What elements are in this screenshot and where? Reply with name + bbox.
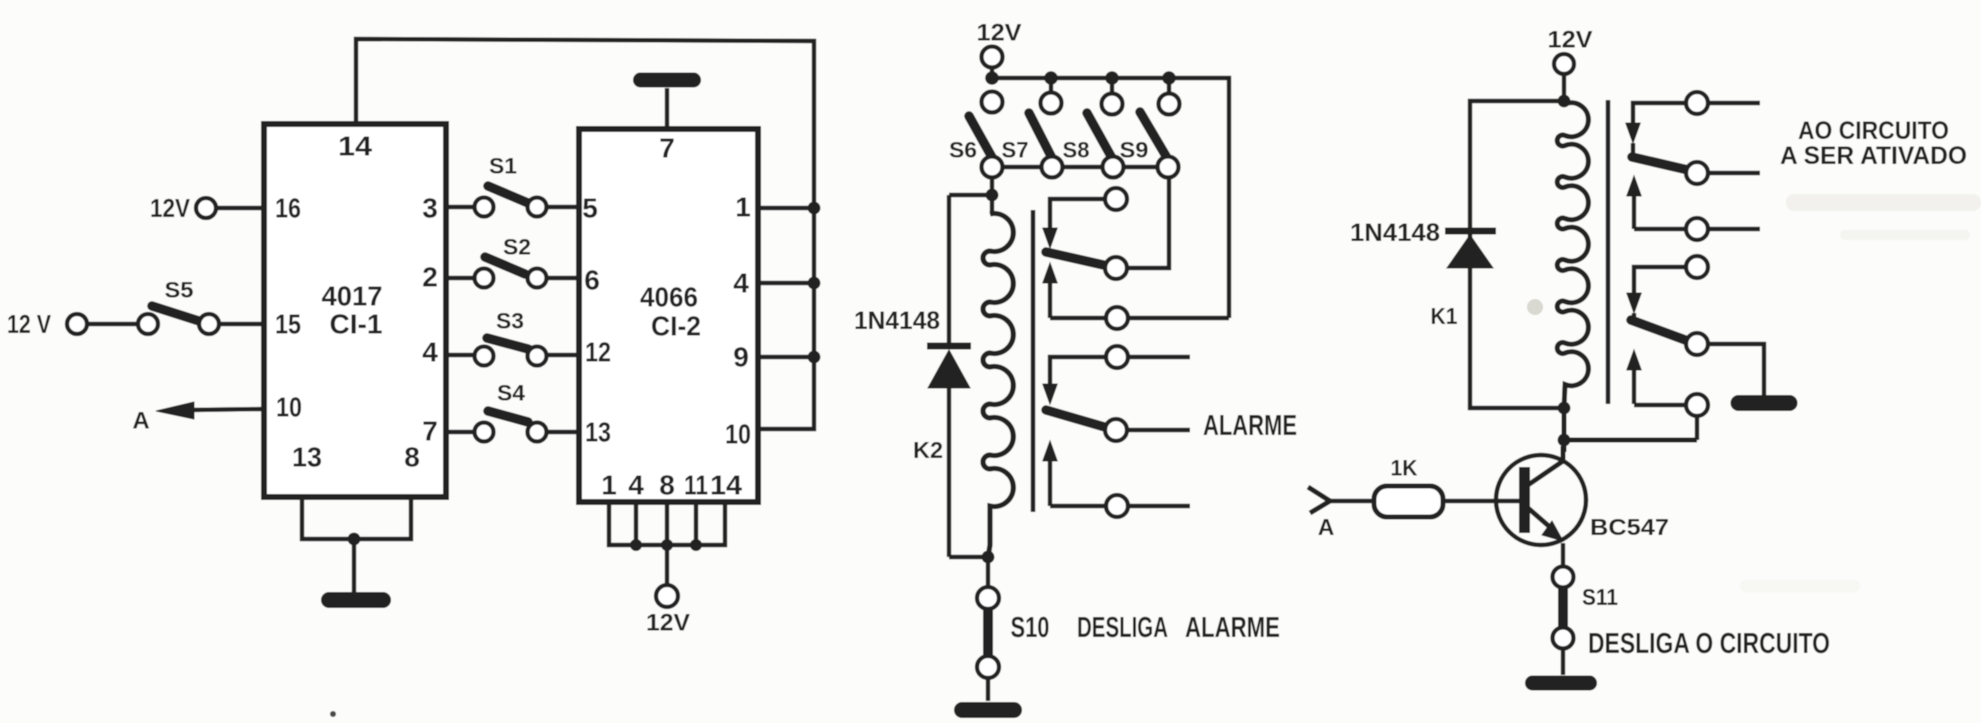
label A SER ATIVADO (1780, 142, 1967, 170)
wire 12V rail over S6-S9 (992, 67, 1229, 318)
svg-text:1: 1 (735, 192, 751, 223)
node dot rail S7 (1044, 71, 1058, 85)
pin 14 bottom label (710, 470, 742, 501)
ground above CI-2 (633, 73, 701, 88)
label DESLIGA ALARME (1077, 612, 1280, 644)
arrow K2 contact2 down (1043, 384, 1057, 404)
svg-text:4: 4 (422, 337, 438, 368)
pin 14 label (338, 131, 372, 162)
svg-text:12V: 12V (1548, 27, 1593, 54)
switch S3 (475, 309, 547, 366)
svg-text:14: 14 (338, 131, 372, 162)
svg-text:13: 13 (292, 442, 322, 473)
svg-text:K1: K1 (1431, 303, 1458, 329)
svg-text:DESLIGA: DESLIGA (1077, 612, 1168, 644)
svg-text:8: 8 (404, 442, 420, 473)
wire R1 to base (1443, 499, 1521, 503)
svg-text:K2: K2 (913, 437, 943, 463)
pin 13 label (585, 417, 611, 448)
pin 4 bottom label (628, 470, 644, 501)
svg-text:BC547: BC547 (1590, 514, 1669, 540)
svg-text:11: 11 (684, 470, 708, 501)
label 1N4148 (D1) (1350, 219, 1440, 247)
svg-text:5: 5 (582, 193, 598, 224)
svg-text:16: 16 (275, 193, 301, 224)
node dot bus pin9 (808, 351, 821, 364)
resistor R1 1K (1374, 456, 1443, 518)
wire K2 contact2 movable (ALARME) (1127, 428, 1190, 432)
wire K1 bottom to collector node (1562, 408, 1567, 452)
svg-text:12V: 12V (646, 610, 690, 637)
K1 contact2 bottom circle (1686, 394, 1708, 416)
K2 contact2 bottom circle (1106, 495, 1128, 517)
K1 contact2 movable circle (1686, 333, 1708, 355)
wire K1 contact2 movable to ground (1708, 344, 1764, 396)
svg-text:12V: 12V (977, 20, 1022, 47)
wire K2 contact1 top fixed (1050, 199, 1105, 229)
wire S10 to ground (986, 678, 990, 701)
arrow K2 contact2 up (1043, 441, 1057, 506)
pin 12 label (585, 337, 611, 368)
K1 contact1 top circle (1686, 92, 1708, 114)
switch S9 (1120, 94, 1180, 178)
svg-text:6: 6 (584, 265, 600, 296)
relay coil K2 (913, 214, 1013, 558)
svg-text:14: 14 (710, 470, 742, 501)
svg-text:1N4148: 1N4148 (1350, 219, 1440, 247)
switch S5 (138, 278, 219, 335)
switch S11 (1553, 567, 1619, 649)
wire K1 contact2 top fixed (1634, 267, 1686, 294)
svg-text:12 V: 12 V (7, 309, 52, 339)
svg-text:S7: S7 (1002, 138, 1029, 163)
node dot K2 bottom (982, 551, 995, 564)
arrow K1 contact1 down (1626, 123, 1640, 155)
svg-text:S5: S5 (165, 278, 194, 303)
K2 contact1 lever (1046, 252, 1108, 266)
wire rail stubs to sensor switches (1051, 78, 1169, 94)
switch S2 (475, 235, 547, 288)
pin 7 label (659, 133, 675, 164)
wire K2 contact1 movable to S9 (1127, 177, 1169, 268)
switch S1 (475, 154, 547, 217)
wire S-switch to CI-2 pin 12 (546, 353, 579, 357)
transistor Q1 BC547 (1496, 446, 1669, 545)
svg-text:3: 3 (422, 193, 438, 224)
wire CI-2 bottom pins 1-4-8-11-14 to 12V (609, 502, 725, 585)
pin 4 label (422, 337, 438, 368)
ground at K1 contact2 (1731, 395, 1798, 411)
svg-text:S1: S1 (489, 154, 517, 179)
wire K1 left rail with diode (1470, 101, 1564, 408)
label 1N4148 (D2) (854, 307, 940, 335)
svg-text:12V: 12V (150, 193, 191, 223)
IC U2 4066 CI-2 body (579, 129, 758, 502)
switch S10 (977, 587, 1050, 678)
wire S11 to ground (1561, 649, 1565, 675)
arrow K2 contact1 down (1043, 228, 1057, 248)
node dot rail S9 (1162, 71, 1176, 85)
diode D2 1N4148 (K2) (927, 346, 971, 557)
IC U1 4017 CI-1 body (264, 124, 446, 497)
arrowhead node A (156, 402, 194, 419)
node dot bus pin1 (808, 202, 821, 215)
label AO CIRCUITO (1798, 117, 1949, 145)
node dot CI-1 ground (348, 533, 361, 546)
pin 10 label (276, 392, 302, 423)
wire S6 common node to K2 (949, 177, 992, 214)
pin 16 label (275, 193, 301, 224)
svg-text:4066: 4066 (640, 282, 698, 313)
svg-text:1: 1 (601, 470, 617, 501)
K2 contact2 top circle (1106, 346, 1128, 368)
K2 contact2 lever (1046, 410, 1108, 428)
K1 contact1 bottom circle (1686, 218, 1708, 240)
label DESLIGA O CIRCUITO (1588, 628, 1830, 660)
K2 contact1 movable circle (1105, 257, 1127, 279)
power terminal 12V (K1) (1548, 27, 1593, 75)
wire 12V terminal to S5 (87, 322, 138, 326)
pin 7 label (422, 416, 438, 447)
pin 5 label (582, 193, 598, 224)
wire K2 coil bottom to S10 (949, 557, 988, 587)
wire K1 contact2 bottom (1634, 405, 1697, 440)
arrow K1 contact1 up (1627, 176, 1641, 229)
node dot collector (1558, 434, 1571, 447)
svg-text:4: 4 (733, 268, 749, 299)
power terminal 12V below CI-2 (646, 585, 690, 637)
ground under S11 (1525, 676, 1597, 691)
svg-text:ALARME: ALARME (1185, 612, 1280, 644)
pin 8 label (404, 442, 420, 473)
wire diode D2 branch top (947, 195, 951, 344)
wire K1 contact1 top fixed (1633, 103, 1760, 124)
svg-text:DESLIGA O CIRCUITO: DESLIGA O CIRCUITO (1588, 628, 1830, 660)
svg-text:A SER ATIVADO: A SER ATIVADO (1780, 142, 1967, 170)
wire A to resistor R1 (1330, 499, 1374, 503)
node A label (132, 408, 149, 435)
label ALARME (1203, 410, 1297, 442)
wire CI-1 pin 2 to S-switch (446, 276, 475, 280)
switch S6 (949, 92, 1003, 178)
svg-text:9: 9 (733, 342, 749, 373)
wire emitter to S11 (1561, 543, 1565, 566)
wire K2 contact2 bottom (1050, 504, 1190, 508)
wire common line under S6-S9 (992, 165, 1169, 169)
pin 3 label (422, 193, 438, 224)
svg-text:S8: S8 (1063, 138, 1090, 163)
pin 1 label (735, 192, 751, 223)
svg-text:S2: S2 (503, 235, 531, 260)
wire pins 13-8 of CI-1 to ground (302, 497, 411, 594)
wire K1 contact1 bottom (1634, 227, 1760, 231)
relay K1 core line (1606, 100, 1611, 404)
wire pin14 of CI-1 to right bus (top feedback wire) (356, 39, 814, 208)
pin 6 label (584, 265, 600, 296)
K2 contact2 movable circle (1105, 419, 1127, 441)
svg-text:S11: S11 (1582, 584, 1618, 610)
wire K2 contact2 top fixed (1050, 357, 1190, 385)
relay K2 core line (1031, 210, 1036, 512)
K2 contact1 bottom circle (1106, 307, 1128, 329)
node dot bus pin4 (808, 277, 821, 290)
svg-text:1K: 1K (1391, 456, 1418, 481)
node dot K1 coil bottom (1558, 402, 1571, 415)
wire S-switch to CI-2 pin 5 (546, 205, 579, 209)
relay coil K1 (1431, 101, 1589, 408)
wire K2 contact1 bottom (1050, 316, 1229, 320)
svg-text:1N4148: 1N4148 (854, 307, 940, 335)
arrow K1 contact2 up (1627, 350, 1641, 404)
svg-text:13: 13 (585, 417, 611, 448)
svg-text:A: A (132, 408, 149, 435)
node dot bottom pin8 (661, 539, 673, 551)
pin 10 label (725, 419, 751, 450)
node dot rail S8 (1105, 71, 1119, 85)
svg-text:7: 7 (422, 416, 438, 447)
svg-text:8: 8 (659, 470, 675, 501)
wire ground to pin 7 of CI-2 (top) (665, 88, 669, 129)
arrow K2 contact1 up (1043, 263, 1057, 318)
pin 15 label (275, 309, 301, 340)
pin 8 bottom label (659, 470, 675, 501)
svg-text:S6: S6 (949, 138, 977, 163)
pin 11 bottom label (684, 470, 708, 501)
ground under S10 (954, 702, 1022, 718)
power terminal 12V (pin16) (150, 193, 216, 223)
wire pin 10 of CI-1 to node A (output) (190, 409, 264, 410)
K2 contact1 top circle (1105, 188, 1127, 210)
K1 contact1 lever (1632, 157, 1688, 170)
power terminal 12V (S5) (7, 309, 87, 339)
K1 contact2 lever (1631, 320, 1688, 341)
node dot bottom pin4 (630, 539, 642, 551)
wire K1 contact1 movable (1708, 171, 1760, 175)
arrow K1 contact2 down (1627, 293, 1641, 320)
svg-text:7: 7 (659, 133, 675, 164)
pin 4 label (733, 268, 749, 299)
pin 13 label (292, 442, 322, 473)
diode D1 1N4148 (K1) (1445, 231, 1496, 268)
node dot rail S6 (985, 71, 999, 85)
svg-text:CI-1: CI-1 (330, 309, 383, 340)
wire 12V to K1 top (1562, 74, 1566, 101)
svg-text:S10: S10 (1011, 612, 1050, 644)
svg-text:4017: 4017 (322, 281, 383, 312)
wire S-switch to CI-2 pin 6 (546, 276, 579, 280)
svg-text:CI-2: CI-2 (651, 311, 701, 342)
wire right bus pins 1-4-9-10 of CI-2 (758, 208, 814, 429)
switch S8 (1063, 94, 1124, 178)
K1 contact1 movable circle (1686, 162, 1708, 184)
pin 1 bottom label (601, 470, 617, 501)
svg-text:S3: S3 (496, 309, 524, 334)
input node A chevron (1308, 487, 1334, 540)
wire 12V to pin 16 of CI-1 (216, 206, 264, 210)
svg-text:S4: S4 (497, 381, 526, 406)
svg-text:AO CIRCUITO: AO CIRCUITO (1798, 117, 1949, 145)
node dot bottom pin11 (690, 539, 702, 551)
svg-text:ALARME: ALARME (1203, 410, 1297, 442)
wire collector node to contact (1564, 438, 1697, 443)
svg-text:10: 10 (725, 419, 751, 450)
svg-text:A: A (1318, 514, 1335, 540)
svg-text:4: 4 (628, 470, 644, 501)
switch S4 (475, 381, 547, 442)
svg-text:2: 2 (422, 262, 438, 293)
node dot K2 top (986, 189, 999, 202)
pin 2 label (422, 262, 438, 293)
power terminal 12V (K2 rail) (977, 20, 1022, 68)
wire CI-1 pin 4 to S-switch (446, 353, 475, 357)
wire S-switch to CI-2 pin 13 (546, 430, 579, 434)
wire CI-1 pin 7 to S-switch (446, 430, 475, 434)
switch S7 (1002, 93, 1063, 178)
svg-text:15: 15 (275, 309, 301, 340)
svg-text:12: 12 (585, 337, 611, 368)
ground under CI-1 (321, 592, 391, 608)
wire CI-1 pin 3 to S-switch (446, 205, 475, 209)
K1 contact2 top circle (1686, 256, 1708, 278)
node dot K1 top (1558, 95, 1571, 108)
svg-text:S9: S9 (1120, 138, 1149, 163)
pin 9 label (733, 342, 749, 373)
svg-text:10: 10 (276, 392, 302, 423)
wire S5 to pin 15 of CI-1 (219, 322, 264, 326)
